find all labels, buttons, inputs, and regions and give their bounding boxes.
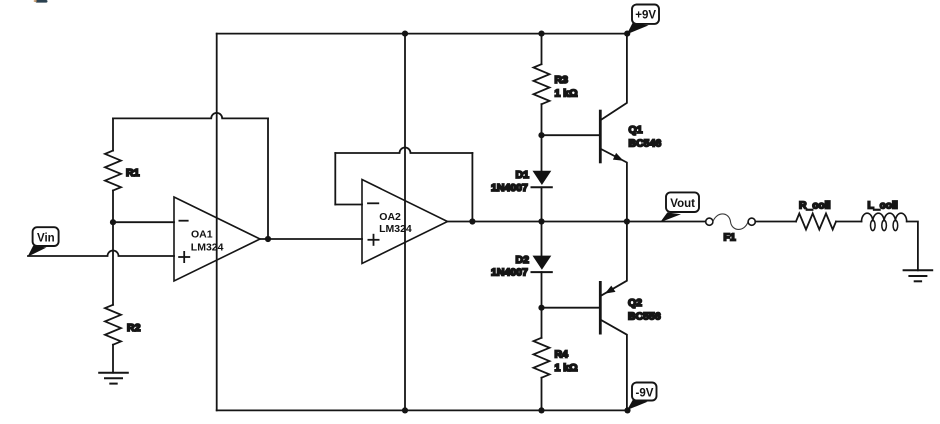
svg-text:D2: D2 <box>516 254 530 266</box>
inductor L_coil humps <box>862 213 907 221</box>
junction node diodes midpoint <box>538 218 544 224</box>
wire R3 top lead <box>541 34 543 65</box>
svg-text:1 kΩ: 1 kΩ <box>555 88 578 100</box>
svg-text:Q1: Q1 <box>629 124 643 136</box>
wire middle vertical rail <box>404 34 406 411</box>
wire fuse to R_coil <box>755 221 796 223</box>
svg-text:R2: R2 <box>127 322 141 334</box>
junction node OA1 output <box>265 236 271 242</box>
inductor L_coil loop 2 <box>882 220 887 230</box>
transistor Q2 emitter diagonal <box>602 222 627 296</box>
svg-text:R3: R3 <box>555 74 569 86</box>
wire Q1 base <box>542 134 601 136</box>
wire R_coil to L_coil <box>836 221 862 223</box>
svg-text:LM324: LM324 <box>191 242 224 254</box>
transistor Q1 emitter arrow <box>613 153 624 161</box>
wire OA2 feedback top with hop <box>335 148 472 154</box>
ground left <box>99 373 128 384</box>
wire Vin to OA1 + input with hop <box>28 251 174 257</box>
label -9V box <box>632 383 657 401</box>
wire OA1 inverting input <box>113 221 174 223</box>
wire R3 bottom to Q1 base node <box>541 104 543 135</box>
junction node -9V rail <box>624 407 630 413</box>
label Vout box <box>666 192 699 212</box>
junction node R3 top rail <box>538 30 544 36</box>
svg-text:LM324: LM324 <box>379 223 412 235</box>
svg-text:1N4007: 1N4007 <box>491 267 528 279</box>
svg-text:+9V: +9V <box>635 10 656 22</box>
node Vout flag pointer <box>660 213 681 223</box>
resistor R4 <box>534 338 550 378</box>
svg-text:-9V: -9V <box>636 387 654 399</box>
svg-text:Q2: Q2 <box>628 297 642 309</box>
wire node to D1 anode <box>541 135 543 171</box>
fuse F1 wavy element <box>713 214 748 229</box>
node +9V flag pointer <box>627 23 649 34</box>
diode D1 <box>532 171 552 188</box>
svg-text:F1: F1 <box>724 232 736 244</box>
svg-text:Vin: Vin <box>37 232 55 244</box>
diode D2 <box>532 256 552 273</box>
wire R1 bottom to R2 top vertical <box>112 191 114 305</box>
wire left vertical rail <box>216 34 218 411</box>
resistor R1 <box>105 151 121 191</box>
wire output bus OA2 to fuse <box>448 221 706 223</box>
junction node Q1 base <box>538 132 544 138</box>
svg-text:BC546: BC546 <box>629 138 662 150</box>
wire OA1 output to OA2 + input <box>260 238 362 240</box>
wire OA2 feedback right vertical <box>471 153 473 222</box>
resistor R2 <box>105 305 121 345</box>
wire -9V bottom rail <box>217 409 628 411</box>
wire D1 cathode to output node <box>541 187 543 221</box>
artifact top-left blob <box>34 0 48 3</box>
wire node to R4 top <box>541 308 543 338</box>
wire node to D2 anode <box>541 222 543 256</box>
wire R2 to ground <box>112 345 114 373</box>
fuse F1 left terminal <box>706 218 713 225</box>
svg-text:R_coil: R_coil <box>799 200 831 212</box>
op-amp OA2 <box>362 180 448 264</box>
resistor R_coil <box>796 214 836 230</box>
wire Q2 base <box>542 307 601 309</box>
node -9V flag pointer <box>627 400 647 410</box>
ground right <box>904 270 933 281</box>
op-amp OA1 plus mark <box>179 252 189 262</box>
wire OA1 feedback top (R1 top to output) with hop <box>113 113 268 119</box>
wire OA1 feedback vertical <box>267 118 269 239</box>
svg-text:OA2: OA2 <box>379 211 401 223</box>
fuse F1 right terminal <box>748 218 755 225</box>
svg-text:OA1: OA1 <box>191 228 213 240</box>
junction node R4 bottom rail <box>538 407 544 413</box>
transistor Q2 base bar <box>599 282 602 333</box>
inductor L_coil loop 1 <box>871 220 876 230</box>
junction node middle rail bottom <box>402 407 408 413</box>
junction node OA2 output feedback tap <box>469 218 475 224</box>
op-amp OA1 minus mark <box>179 220 187 222</box>
junction node output emitters <box>624 218 630 224</box>
svg-text:R1: R1 <box>126 167 140 179</box>
svg-text:BC556: BC556 <box>628 311 661 323</box>
wire OA2 feedback left vertical <box>334 153 336 205</box>
wire D2 cathode to Q2 base node <box>541 272 543 308</box>
wire R1 top lead <box>112 118 114 150</box>
svg-text:R4: R4 <box>555 349 569 361</box>
junction node middle rail top <box>402 30 408 36</box>
transistor Q1 emitter diagonal <box>602 149 627 221</box>
junction node inverting input OA1 <box>110 219 116 225</box>
resistor R3 <box>534 64 550 104</box>
op-amp OA2 minus mark <box>368 202 378 204</box>
wire R4 bottom lead <box>541 378 543 411</box>
svg-text:1N4007: 1N4007 <box>491 182 528 194</box>
transistor Q2 collector diagonal <box>602 321 627 411</box>
transistor Q2 emitter arrow <box>605 286 616 294</box>
label +9V box <box>632 5 659 24</box>
label Vin box <box>33 227 59 246</box>
transistor Q1 collector diagonal <box>602 34 627 120</box>
junction node +9V rail <box>624 30 630 36</box>
junction node Q2 base <box>538 305 544 311</box>
node Vin flag <box>28 246 47 257</box>
wire OA2 inverting input <box>335 204 362 206</box>
wire L_coil to ground corner <box>907 222 918 271</box>
inductor L_coil loop 3 <box>893 220 898 230</box>
svg-text:D1: D1 <box>516 169 530 181</box>
svg-text:1 kΩ: 1 kΩ <box>555 362 578 374</box>
svg-text:Vout: Vout <box>670 198 695 210</box>
op-amp OA1 <box>174 197 260 281</box>
wire +9V top rail <box>217 33 628 35</box>
op-amp OA2 plus mark <box>368 235 378 245</box>
transistor Q1 base bar <box>599 111 602 162</box>
svg-text:L_coil: L_coil <box>868 200 898 212</box>
